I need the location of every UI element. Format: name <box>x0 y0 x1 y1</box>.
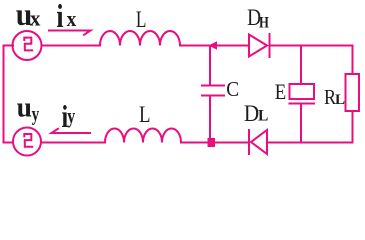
inductor L (bottom) <box>105 129 181 143</box>
capacitor C top lead <box>209 46 211 85</box>
wire L to u_y <box>42 142 106 144</box>
wire D_H to right corner <box>271 45 353 47</box>
AC source u_x <box>13 31 42 60</box>
node square bottom junction <box>208 138 216 147</box>
svg-text:L: L <box>258 107 268 124</box>
wire u_x left stub <box>4 45 14 47</box>
svg-text:C: C <box>226 78 239 101</box>
svg-text:x: x <box>30 6 41 31</box>
wire junction to L bottom <box>181 142 208 144</box>
AC source u_y <box>13 128 41 156</box>
svg-text:H: H <box>259 14 269 31</box>
wire L to D_H <box>180 45 249 47</box>
current arrow i_x <box>49 31 91 35</box>
svg-text:i: i <box>56 0 63 35</box>
svg-text:E: E <box>275 81 286 105</box>
battery E <box>290 84 315 104</box>
wire D_L to junction <box>215 142 248 144</box>
capacitor C <box>202 86 224 96</box>
node arrow at top junction <box>209 41 218 49</box>
wire left vertical <box>3 46 5 143</box>
svg-text:D: D <box>244 100 259 126</box>
wire u_y left stub <box>4 142 14 144</box>
battery E bottom lead <box>300 105 302 142</box>
wire u_x to L <box>42 45 101 47</box>
svg-text:L: L <box>139 101 151 127</box>
capacitor C bottom lead <box>209 97 211 142</box>
svg-text:x: x <box>67 8 77 31</box>
battery E top lead <box>300 46 302 84</box>
svg-text:u: u <box>17 92 32 124</box>
diode D_H <box>249 34 270 57</box>
svg-text:y: y <box>32 102 40 125</box>
wire bottom right <box>267 142 353 144</box>
diode D_L <box>249 130 267 154</box>
svg-text:L: L <box>136 8 147 33</box>
inductor L (top) <box>100 31 180 45</box>
wire right vertical top <box>352 46 354 75</box>
current arrow i_y <box>52 129 91 133</box>
svg-text:L: L <box>335 92 345 108</box>
resistor R_L <box>346 74 360 111</box>
wire right vertical bottom <box>352 111 354 143</box>
svg-text:y: y <box>67 104 75 128</box>
